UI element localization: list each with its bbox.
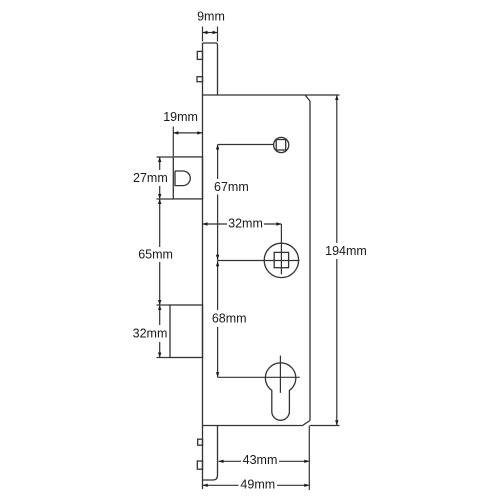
- dim 27mm bottom arrow: [158, 194, 161, 199]
- svg-text:27mm: 27mm: [133, 171, 168, 185]
- svg-text:68mm: 68mm: [212, 312, 247, 326]
- svg-text:32mm: 32mm: [133, 327, 168, 341]
- dim 32mm left bottom tick: [157, 357, 171, 359]
- follower square: [274, 252, 288, 267]
- dim 194mm top arrow: [335, 95, 338, 100]
- dim 65mm top arrow: [158, 199, 161, 204]
- dim 67mm line: [217, 145, 219, 261]
- dim 43mm line: [219, 460, 310, 462]
- faceplate tab 2: [197, 77, 203, 82]
- dim 32mm left top arrow: [158, 305, 161, 310]
- svg-text:194mm: 194mm: [325, 244, 367, 258]
- dim 27mm bottom tick: [157, 198, 174, 200]
- case top extension line: [305, 94, 340, 96]
- deadbolt rectangle: [170, 305, 203, 358]
- dim 43mm left arrow: [219, 460, 224, 463]
- dim 9mm right extension: [217, 27, 219, 42]
- dim 9mm line: [203, 32, 218, 34]
- svg-text:67mm: 67mm: [214, 180, 249, 194]
- svg-text:9mm: 9mm: [197, 10, 225, 24]
- dim 32mm left line: [159, 305, 161, 358]
- dim 27mm top arrow: [158, 157, 161, 162]
- dim 194mm line: [336, 95, 338, 425]
- dim 49mm left arrow: [203, 484, 208, 487]
- dim 67mm top arrow: [216, 145, 219, 150]
- dim 68mm line: [217, 261, 219, 377]
- lock case body: [203, 95, 311, 426]
- follower circle: [264, 243, 298, 277]
- dim 68mm bottom arrow: [216, 372, 219, 377]
- dim 32mm backset line: [203, 223, 282, 225]
- dim 67mm top branch: [218, 144, 274, 146]
- right extension line for 43mm and 49mm: [308, 426, 310, 491]
- latch bolt: [175, 171, 190, 186]
- svg-text:43mm: 43mm: [243, 453, 278, 467]
- faceplate bottom section: [203, 426, 218, 480]
- euro cylinder vertical centerline: [279, 356, 281, 393]
- dim 194mm bottom arrow: [335, 420, 338, 425]
- faceplate top section: [203, 43, 218, 95]
- dim 9mm left arrow: [203, 31, 208, 34]
- dim 19mm line: [173, 132, 202, 134]
- dim 49mm line: [203, 484, 310, 486]
- euro crosshair horizontal: [218, 376, 300, 378]
- dim 32mm backset vertical to follower: [280, 224, 282, 274]
- top fixing hole circle: [274, 137, 289, 152]
- dim 43mm right arrow: [304, 460, 309, 463]
- dim 32mm backset left arrow: [203, 222, 208, 225]
- dim 49mm right arrow: [304, 484, 309, 487]
- svg-text:32mm: 32mm: [228, 217, 263, 231]
- svg-text:19mm: 19mm: [163, 110, 198, 124]
- follower crosshair horizontal: [218, 260, 300, 262]
- dim 9mm right arrow: [213, 31, 218, 34]
- faceplate tab 4: [197, 461, 202, 469]
- dim 67mm bottom arrow: [216, 255, 219, 260]
- dim 32mm left top tick: [157, 304, 171, 306]
- dim 19mm left arrow: [173, 131, 178, 134]
- faceplate tab 1: [197, 51, 202, 59]
- dim 19mm extension: [172, 127, 174, 157]
- dim 32mm backset right arrow: [276, 222, 281, 225]
- svg-text:65mm: 65mm: [138, 248, 173, 262]
- svg-text:49mm: 49mm: [240, 478, 275, 492]
- top fixing hole square: [276, 140, 286, 151]
- dim 68mm top arrow: [216, 261, 219, 266]
- dim 32mm left bottom arrow: [158, 353, 161, 358]
- latch body rectangle: [173, 157, 202, 199]
- faceplate tab 3: [198, 439, 203, 445]
- dim 19mm right arrow: [197, 131, 202, 134]
- dim 65mm line: [159, 199, 161, 305]
- dim 27mm line: [159, 157, 161, 199]
- case bottom extension line: [310, 425, 340, 427]
- dim 9mm left extension: [202, 27, 204, 42]
- dim 27mm top tick: [157, 156, 174, 158]
- faceplate left edge: [202, 43, 204, 489]
- dim 65mm bottom arrow: [158, 300, 161, 305]
- euro cylinder profile: [265, 363, 295, 420]
